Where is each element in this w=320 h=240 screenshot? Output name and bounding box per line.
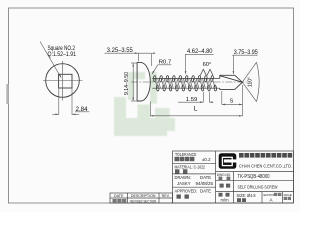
border frame <box>9 8 294 203</box>
part name row <box>220 184 231 188</box>
svg-text:L: L <box>194 105 198 112</box>
crosshair vertical <box>62 61 64 101</box>
svg-text:Q:1.52–1.91: Q:1.52–1.91 <box>48 51 77 58</box>
square projection right <box>71 88 73 115</box>
watermark logo (pale green) <box>0 0 1 1</box>
unit cell <box>219 193 230 197</box>
svg-text:110°: 110° <box>248 77 254 87</box>
leader arrowhead <box>59 74 62 78</box>
square recess <box>59 74 72 88</box>
svg-text:DESCRIPTION: DESCRIPTION <box>131 194 156 198</box>
dim S <box>222 91 243 104</box>
dim 3.75-3.95 <box>232 55 257 73</box>
square projection left <box>58 88 60 115</box>
svg-text:9.14–9.50: 9.14–9.50 <box>124 71 130 95</box>
svg-text:TOLERANCE: TOLERANCE <box>175 152 197 157</box>
svg-text:1.59: 1.59 <box>186 97 197 103</box>
dim 2.84 tick right <box>72 113 79 115</box>
svg-text:DATE: DATE <box>114 194 124 198</box>
dim 4.62-4.80 <box>185 54 214 73</box>
svg-text:R0.7: R0.7 <box>159 60 171 66</box>
svg-text:DWG.NO.: DWG.NO. <box>217 173 231 177</box>
svg-text:PAGE: PAGE <box>284 193 292 197</box>
svg-text:94/08/25: 94/08/25 <box>196 181 214 186</box>
circle head outline <box>46 64 80 98</box>
svg-text:2.84: 2.84 <box>76 106 89 113</box>
centerline <box>131 81 250 83</box>
threads <box>152 78 220 88</box>
svg-text:SELF DRILLING SCREW: SELF DRILLING SCREW <box>238 185 279 190</box>
pan head <box>137 63 150 101</box>
frame smudge left <box>6 84 8 104</box>
drill body <box>220 75 243 89</box>
svg-text:DATE: DATE <box>200 189 211 194</box>
arrows 2.84 <box>55 114 58 116</box>
dim 9.14-9.50 <box>131 63 137 101</box>
svg-text:60°: 60° <box>203 62 212 68</box>
dim 2.84 text underline <box>75 111 89 113</box>
svg-text:REV.: REV. <box>162 194 170 198</box>
svg-text:EDITION: EDITION <box>264 193 276 197</box>
thread flanks <box>155 79 216 88</box>
svg-text:MATERIAL: C-1022: MATERIAL: C-1022 <box>175 164 206 169</box>
point angle fan <box>242 62 259 101</box>
R0.7 callout <box>152 65 171 74</box>
leader to square <box>40 42 61 78</box>
crosshair horizontal <box>43 80 83 82</box>
dim L <box>150 85 242 116</box>
dim 3.25-3.55 <box>105 53 152 66</box>
dim 2.84 tick left <box>52 113 59 115</box>
svg-text:DATE: DATE <box>200 175 211 180</box>
svg-text:A: A <box>269 198 273 203</box>
svg-text:JASKY: JASKY <box>177 181 191 186</box>
svg-text:REVISED SECTION: REVISED SECTION <box>130 199 156 203</box>
dim 1.59 <box>178 92 213 102</box>
svg-text:APPROVED:: APPROVED: <box>175 189 198 194</box>
svg-text:CHAN CHEN C.ENT.CO.,LTD.: CHAN CHEN C.ENT.CO.,LTD. <box>239 164 292 169</box>
svg-text:TK-PSQB-48000: TK-PSQB-48000 <box>238 174 270 180</box>
svg-text:3.25–3.55: 3.25–3.55 <box>107 47 134 54</box>
svg-text:m/m: m/m <box>221 198 230 203</box>
svg-text:±0.2: ±0.2 <box>202 157 211 162</box>
thread crests top <box>153 76 213 82</box>
svg-text:4.62–4.80: 4.62–4.80 <box>187 48 213 55</box>
svg-text:SIZE: Ø4.8: SIZE: Ø4.8 <box>237 193 256 198</box>
svg-text:S: S <box>230 99 234 105</box>
svg-text:3.75–3.95: 3.75–3.95 <box>234 49 258 56</box>
company logo <box>219 153 238 169</box>
thread crests bottom <box>156 85 216 91</box>
svg-text:DRAWN:: DRAWN: <box>175 175 192 180</box>
company name CJK <box>239 153 292 158</box>
